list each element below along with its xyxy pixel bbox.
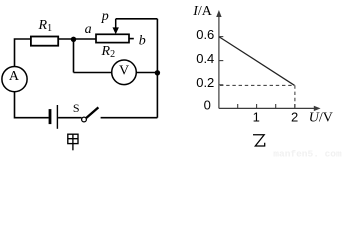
terminal b stub xyxy=(129,38,134,40)
svg-text:p: p xyxy=(101,9,109,24)
svg-text:1: 1 xyxy=(253,110,260,125)
node a junction dot xyxy=(71,37,76,42)
switch S blade xyxy=(86,107,98,118)
resistor R1 xyxy=(31,37,58,46)
wire battery to switch xyxy=(58,117,82,119)
wire top-left corner to R1 (left branch down to ammeter) xyxy=(15,39,31,67)
svg-text:0.6: 0.6 xyxy=(196,27,214,42)
x-axis ticks xyxy=(238,104,295,108)
wire ammeter down to bottom-left corner xyxy=(15,92,49,118)
svg-text:V: V xyxy=(119,63,129,78)
svg-text:S: S xyxy=(73,101,80,115)
caption yi (CJK) xyxy=(253,135,265,146)
dashed line vertical U=2 xyxy=(294,85,296,107)
svg-text:I/A: I/A xyxy=(192,4,213,19)
rheostat R2 body xyxy=(96,34,129,42)
svg-text:0.4: 0.4 xyxy=(196,51,214,66)
svg-text:b: b xyxy=(139,33,146,48)
graph y-axis xyxy=(219,13,317,108)
battery positive plate (long thin) xyxy=(56,105,58,129)
svg-text:0.2: 0.2 xyxy=(196,75,214,90)
wire right vertical xyxy=(156,19,158,118)
wire R1 to rheostat xyxy=(58,38,96,40)
battery negative plate (short thick) xyxy=(49,109,52,124)
svg-text:2: 2 xyxy=(291,110,298,125)
svg-text:A: A xyxy=(9,69,20,84)
ammeter A xyxy=(2,67,27,92)
svg-text:U/V: U/V xyxy=(309,111,333,126)
rheostat slider arrow P xyxy=(113,19,119,34)
wire voltmeter branch left xyxy=(74,72,112,74)
switch S pivot xyxy=(82,117,87,122)
caption jia (CJK) xyxy=(68,134,78,150)
wire slider to top-right corner xyxy=(116,18,158,20)
x-axis arrowhead xyxy=(314,106,321,111)
svg-text:manfen5. com: manfen5. com xyxy=(273,148,342,159)
svg-text:a: a xyxy=(85,22,92,37)
svg-text:0: 0 xyxy=(204,97,211,112)
wire junction down to voltmeter branch xyxy=(73,39,75,72)
y-axis arrowhead xyxy=(216,10,221,17)
wire voltmeter to right vertical xyxy=(136,72,157,74)
dashed line horizontal 0.2 xyxy=(220,84,295,86)
voltmeter V xyxy=(112,60,137,85)
junction dot right xyxy=(155,70,160,75)
wire switch to right vertical xyxy=(101,117,158,119)
y-axis ticks xyxy=(219,37,223,85)
I-U line xyxy=(219,37,294,85)
